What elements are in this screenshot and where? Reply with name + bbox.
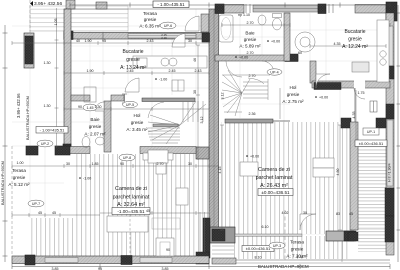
svg-text:1.90: 1.90 bbox=[87, 69, 94, 73]
dashed center right-unit bbox=[284, 210, 286, 262]
dimension vertical west outside bbox=[55, 8, 59, 148]
svg-text:A: 12.24 m²: A: 12.24 m² bbox=[342, 44, 368, 50]
column terrace wall right bbox=[55, 146, 70, 155]
south balustrade right-unit bbox=[212, 258, 236, 264]
svg-text:30: 30 bbox=[193, 90, 197, 94]
UP-4 oval bbox=[267, 69, 282, 75]
toilet baie left bbox=[82, 137, 90, 148]
room label Camera de zi left bbox=[113, 186, 150, 208]
svg-text:45: 45 bbox=[38, 211, 42, 215]
svg-text:UP-8: UP-8 bbox=[123, 156, 131, 160]
entry steps right-unit bbox=[326, 231, 354, 241]
svg-text:parchet laminat: parchet laminat bbox=[256, 175, 293, 181]
svg-text:gresie: gresie bbox=[287, 92, 300, 97]
room label Terasa mid-left bbox=[8, 168, 30, 187]
wall hol-living seg west bbox=[60, 147, 90, 154]
svg-text:±0.00=436.51: ±0.00=436.51 bbox=[359, 141, 384, 146]
svg-text:4.02: 4.02 bbox=[282, 211, 289, 215]
window south wall left bbox=[140, 258, 172, 263]
entry steps right hatch block bbox=[344, 231, 356, 241]
pier top of west wall bbox=[66, 0, 75, 9]
column terrace wall left bbox=[26, 146, 38, 155]
kitchen counter left-unit bbox=[133, 56, 207, 68]
terasa top edge line bbox=[69, 8, 209, 10]
room label Baie right bbox=[239, 31, 261, 49]
window east wall 2 bbox=[387, 120, 393, 186]
wall baie south right-unit bbox=[215, 55, 298, 61]
entry steps dim line bbox=[341, 241, 343, 262]
svg-text:Baie: Baie bbox=[90, 117, 100, 122]
svg-text:±0.00=436.51: ±0.00=436.51 bbox=[246, 246, 271, 251]
svg-text:gresie: gresie bbox=[291, 247, 304, 252]
window band left north wall bbox=[128, 34, 196, 39]
svg-text:4.15: 4.15 bbox=[218, 167, 222, 174]
porch steps center hatch bbox=[212, 229, 225, 241]
wall baie-hol left-unit bbox=[104, 101, 111, 152]
column left north near party wall bbox=[201, 14, 209, 32]
svg-text:A: 5.89 m²: A: 5.89 m² bbox=[239, 44, 261, 49]
svg-text:3.95+ 432.56: 3.95+ 432.56 bbox=[16, 93, 21, 118]
column west wall bottom bbox=[63, 144, 71, 153]
window gap marks 1 bbox=[246, 4, 250, 13]
dashed line left living bbox=[129, 210, 131, 255]
svg-text:45: 45 bbox=[146, 209, 150, 213]
svg-text:90: 90 bbox=[78, 105, 82, 109]
pier at terasa top bbox=[96, 2, 107, 9]
east wall right-unit bbox=[386, 13, 394, 255]
svg-text:4.38: 4.38 bbox=[297, 255, 304, 259]
dashed eave line top-left bbox=[29, 0, 31, 33]
svg-text:gresie: gresie bbox=[244, 37, 257, 42]
window east wall 1 bbox=[387, 26, 393, 66]
svg-text:45: 45 bbox=[349, 212, 353, 216]
svg-text:2.70: 2.70 bbox=[247, 51, 254, 55]
dining table left living bbox=[143, 150, 173, 163]
dimension line right edge bbox=[397, 5, 400, 262]
radiator entry right-unit bbox=[370, 101, 377, 112]
porch column right right-unit bbox=[376, 118, 386, 128]
room label Bucatarie left bbox=[120, 49, 146, 71]
svg-text:40: 40 bbox=[76, 39, 80, 43]
wall hol south right-unit bbox=[312, 81, 390, 88]
sofa left living bbox=[107, 216, 148, 232]
UP-6 oval bbox=[160, 22, 176, 29]
dimension line south living left bbox=[100, 211, 209, 215]
spot elevation living right bbox=[235, 56, 248, 60]
svg-text:BALUSTRADA HP=90CM: BALUSTRADA HP=90CM bbox=[258, 264, 309, 269]
kitchen counter right-unit bbox=[377, 20, 389, 82]
kitchen island right-unit bbox=[352, 62, 369, 72]
spot elevation living left bbox=[79, 177, 91, 181]
dim numbers vertical bbox=[54, 19, 356, 176]
svg-text:1.75: 1.75 bbox=[358, 91, 365, 95]
svg-text:Terasa: Terasa bbox=[12, 168, 26, 173]
hol west boundary line bbox=[279, 88, 281, 119]
UP-2 oval bbox=[37, 140, 53, 147]
svg-text:30: 30 bbox=[188, 39, 192, 43]
railing line center-bottom bbox=[235, 234, 302, 236]
svg-text:A: 2.07 m²: A: 2.07 m² bbox=[84, 132, 106, 137]
svg-text:UP-5: UP-5 bbox=[126, 103, 134, 107]
porch steps center bbox=[210, 227, 235, 243]
interior wall bucatarie-hol seg1 bbox=[111, 95, 124, 101]
svg-text:46: 46 bbox=[193, 58, 197, 62]
right side exterior steps bbox=[358, 146, 389, 230]
handrail stair-living right-unit bbox=[225, 119, 273, 123]
dim numbers right unit bbox=[52, 13, 365, 270]
column left north-west corner bbox=[64, 31, 73, 40]
column east wall mid1 bbox=[386, 66, 394, 79]
svg-text:90: 90 bbox=[166, 248, 170, 252]
svg-text:30: 30 bbox=[303, 211, 307, 215]
door arc baie left bbox=[95, 102, 104, 111]
spot elevation baie right bbox=[267, 40, 280, 44]
bathtub baie right-unit bbox=[219, 15, 233, 42]
deck planks top-left terrace bbox=[30, 6, 128, 31]
svg-text:3.12: 3.12 bbox=[221, 93, 225, 100]
column south mid left bbox=[121, 256, 132, 265]
svg-text:A: 26.43 m²: A: 26.43 m² bbox=[260, 183, 288, 189]
interior wall bucatarie-hol bar bbox=[142, 98, 195, 102]
door gap hol south bbox=[354, 81, 365, 89]
wall north right-unit seg2 bbox=[355, 5, 386, 14]
svg-text:4.35: 4.35 bbox=[352, 112, 356, 119]
kitchen sink right bowl1 bbox=[380, 51, 386, 57]
shelf unit baie left bbox=[84, 87, 96, 102]
svg-text:1.90: 1.90 bbox=[85, 39, 92, 43]
door arc hol-bucatarie right bbox=[316, 74, 330, 88]
door arc terasa left bbox=[185, 16, 199, 31]
svg-text:+0.00: +0.00 bbox=[271, 40, 280, 44]
party wall center bbox=[209, 9, 219, 242]
kitchen sink left bowl1 bbox=[161, 58, 169, 66]
UP-1 box bbox=[363, 128, 379, 135]
dimension line above living left bbox=[12, 164, 219, 168]
svg-text:95: 95 bbox=[102, 39, 106, 43]
elevation box top bbox=[153, 1, 189, 8]
svg-text:2.70: 2.70 bbox=[157, 162, 164, 166]
svg-text:BALUSTRADA HP=90CM: BALUSTRADA HP=90CM bbox=[26, 96, 30, 140]
room label Bucatarie right bbox=[342, 29, 368, 50]
door arc entry right-unit bbox=[354, 88, 365, 99]
svg-text:+0.00: +0.00 bbox=[239, 56, 248, 60]
svg-text:Hol: Hol bbox=[290, 85, 297, 90]
svg-text:A: 6.35 m²: A: 6.35 m² bbox=[139, 24, 161, 29]
porch step lines center bbox=[212, 246, 234, 254]
svg-text:parchet laminat: parchet laminat bbox=[113, 195, 150, 201]
svg-text:2.36: 2.36 bbox=[249, 112, 256, 116]
oval 1.45 bbox=[83, 104, 97, 111]
sink baie right-unit bbox=[258, 15, 266, 25]
svg-text:UP-2: UP-2 bbox=[41, 142, 49, 146]
dim numbers left unit bbox=[17, 33, 202, 252]
column east wall mid2 bbox=[386, 104, 394, 119]
column party wall lower bbox=[196, 147, 209, 159]
svg-text:Terasa: Terasa bbox=[143, 11, 157, 16]
wall baie-bucatarie right-unit bbox=[284, 13, 290, 61]
svg-text:A: 2.75 m²: A: 2.75 m² bbox=[282, 99, 304, 104]
cabinet left living bbox=[156, 163, 166, 174]
svg-text:45: 45 bbox=[52, 211, 56, 215]
svg-text:gresie: gresie bbox=[89, 124, 102, 129]
spot elevation bucatarie right bbox=[315, 96, 328, 100]
UP-7 oval bbox=[28, 200, 44, 207]
svg-text:1.30: 1.30 bbox=[44, 61, 51, 65]
west wall left-unit bbox=[64, 9, 71, 152]
window south wall far left bbox=[45, 258, 78, 263]
svg-text:2.45: 2.45 bbox=[127, 69, 134, 73]
kitchen appliance left bbox=[137, 58, 147, 67]
radiator mark hol bbox=[122, 94, 127, 103]
svg-text:A: 5.12 m²: A: 5.12 m² bbox=[8, 182, 30, 187]
room label Hol right bbox=[282, 85, 304, 104]
svg-text:gresie: gresie bbox=[144, 17, 157, 22]
kitchen appliance pair left bbox=[172, 80, 184, 91]
party wall dark strip south bbox=[203, 218, 210, 258]
coffee table left living bbox=[156, 238, 174, 256]
elevation box terasa right bbox=[242, 246, 274, 252]
svg-text:1.45: 1.45 bbox=[87, 106, 94, 110]
interior wall west stub bbox=[71, 95, 90, 101]
dimension line hol left bbox=[64, 107, 209, 111]
room label Baie left bbox=[84, 117, 106, 137]
svg-text:gresie: gresie bbox=[131, 120, 144, 125]
svg-text:1.30: 1.30 bbox=[95, 105, 102, 109]
svg-text:3.12: 3.12 bbox=[200, 117, 204, 124]
staircase right-unit bbox=[222, 61, 270, 116]
svg-text:1.30: 1.30 bbox=[44, 104, 51, 108]
right terrace planks bbox=[234, 236, 350, 259]
room label Camera de zi right bbox=[256, 167, 293, 189]
wall hol-bucatarie stub bbox=[310, 61, 316, 83]
door arc baie right bbox=[262, 61, 274, 73]
svg-text:8.10: 8.10 bbox=[255, 256, 262, 260]
dimension vertical pair near party wall bbox=[200, 212, 205, 252]
column party wall upper bbox=[202, 33, 210, 42]
svg-text:- 1.00=435.51: - 1.00=435.51 bbox=[40, 128, 66, 133]
dimension line left terrace bottom bbox=[12, 213, 100, 217]
svg-text:30: 30 bbox=[188, 162, 192, 166]
svg-text:2.43: 2.43 bbox=[147, 39, 154, 43]
dashed boundary left bbox=[11, 146, 13, 262]
tv cabinet right living bbox=[313, 158, 334, 168]
svg-text:-1.00=435.51: -1.00=435.51 bbox=[117, 209, 145, 214]
svg-text:UP-1: UP-1 bbox=[367, 130, 375, 134]
tv cabinet right living 2 bbox=[313, 168, 334, 177]
door arc kitchen left bbox=[172, 34, 185, 48]
handrail left stair bbox=[153, 124, 178, 127]
column party wall south end bbox=[196, 252, 209, 264]
svg-text:Terasa: Terasa bbox=[290, 240, 304, 245]
svg-text:3.95+ 432.56: 3.95+ 432.56 bbox=[34, 1, 62, 7]
dimension line top bbox=[70, 3, 390, 8]
svg-text:UP-6: UP-6 bbox=[164, 24, 172, 28]
dimension line below left north wall bbox=[12, 41, 209, 45]
round table bucatarie right bbox=[295, 32, 315, 52]
svg-text:BALUSTRADA HP=90CM: BALUSTRADA HP=90CM bbox=[1, 161, 5, 205]
svg-text:Camera de zi: Camera de zi bbox=[258, 167, 290, 173]
elevation box entry right bbox=[355, 140, 387, 147]
window gap marks 2 bbox=[329, 4, 333, 13]
wall hol-living seg east bbox=[140, 147, 196, 154]
spot elevation hol left bbox=[155, 78, 167, 82]
dimension line left edge bbox=[3, 25, 8, 262]
svg-text:+0.00: +0.00 bbox=[250, 155, 259, 159]
svg-text:UP-4: UP-4 bbox=[270, 71, 278, 75]
round table inner bbox=[300, 37, 310, 47]
dimension line right unit upper bbox=[222, 23, 390, 48]
svg-text:1.85: 1.85 bbox=[92, 162, 99, 166]
UP-5 oval bbox=[123, 101, 138, 107]
svg-text:Baie: Baie bbox=[245, 31, 255, 36]
UP-3 oval bbox=[269, 242, 285, 249]
elevation box living right bbox=[258, 189, 293, 196]
svg-text:A: 32.64 m²: A: 32.64 m² bbox=[117, 202, 145, 208]
svg-text:30: 30 bbox=[66, 162, 70, 166]
svg-text:-1.00: -1.00 bbox=[159, 78, 167, 82]
svg-text:Bucatarie: Bucatarie bbox=[344, 29, 365, 35]
svg-text:2.45: 2.45 bbox=[169, 69, 176, 73]
door arc bucatarie-hol bbox=[125, 78, 139, 92]
svg-text:2.70: 2.70 bbox=[249, 74, 256, 78]
svg-text:+0.00: +0.00 bbox=[319, 96, 328, 100]
wall north left-unit bbox=[64, 33, 209, 40]
toilet baie right-unit bbox=[273, 18, 282, 30]
svg-text:2.43: 2.43 bbox=[195, 69, 202, 73]
svg-text:UP-3: UP-3 bbox=[273, 244, 281, 248]
balustrade bar dark part bbox=[25, 36, 33, 64]
wall north right-unit seg1 bbox=[224, 5, 244, 14]
svg-text:Hol: Hol bbox=[134, 113, 141, 118]
room label Hol left bbox=[126, 113, 148, 132]
south wall left-unit bbox=[12, 256, 209, 264]
elevation box living left bbox=[112, 208, 150, 215]
living room left plank floor bbox=[74, 154, 208, 257]
column hol south bbox=[314, 83, 341, 90]
svg-text:2.19: 2.19 bbox=[161, 36, 167, 40]
svg-text:- 1.00=435.51: - 1.00=435.51 bbox=[157, 2, 185, 7]
svg-text:-1.00: -1.00 bbox=[83, 177, 91, 181]
svg-text:83: 83 bbox=[336, 212, 340, 216]
porch column left right-unit bbox=[341, 118, 351, 128]
spot elevation camera right bbox=[246, 155, 259, 159]
column right north 2 bbox=[318, 4, 326, 14]
dimension line mid left unit bbox=[64, 71, 209, 75]
svg-text:1.00: 1.00 bbox=[17, 161, 24, 165]
kitchen sink left bowl2 bbox=[169, 58, 177, 66]
left lower terrace planks bbox=[29, 218, 74, 257]
column right north at party wall bbox=[215, 4, 224, 14]
svg-text:gresie: gresie bbox=[348, 37, 362, 43]
staircase left-unit bbox=[148, 101, 206, 144]
room label Terasa top bbox=[139, 11, 161, 29]
svg-text:±0.00=436.51: ±0.00=436.51 bbox=[261, 190, 290, 195]
svg-text:np 1.10: np 1.10 bbox=[238, 13, 250, 17]
living room right plank floor bbox=[221, 122, 350, 234]
window band right north bbox=[253, 5, 318, 12]
svg-text:Bucatarie: Bucatarie bbox=[122, 49, 143, 55]
svg-text:90: 90 bbox=[120, 162, 124, 166]
sink baie left bbox=[96, 137, 105, 145]
elevation box terrace left bbox=[36, 127, 68, 134]
column east wall bottom bbox=[385, 216, 394, 242]
armchair left living bbox=[176, 188, 188, 205]
wall living-terasa east bbox=[350, 122, 358, 230]
kitchen sink right bowl2 bbox=[380, 59, 386, 65]
svg-text:H tr.=1.90/4: H tr.=1.90/4 bbox=[388, 163, 392, 182]
svg-text:Camera de zi: Camera de zi bbox=[115, 186, 147, 192]
entry corridor wall line bbox=[354, 88, 356, 122]
svg-text:6.10: 6.10 bbox=[262, 225, 269, 229]
column east wall lower bbox=[385, 188, 394, 216]
svg-text:A: 3.45 m²: A: 3.45 m² bbox=[126, 127, 148, 132]
svg-text:1.05: 1.05 bbox=[54, 19, 58, 26]
sideboard right living bbox=[240, 162, 258, 176]
dimension line bottom bbox=[12, 264, 390, 269]
balustrade bar upper-left bbox=[24, 33, 34, 68]
dimension vertical right living bbox=[338, 90, 356, 230]
elevation flag top-left bbox=[30, 1, 62, 7]
dimension vertical party wall bbox=[196, 45, 224, 230]
door arc terasa right-unit bbox=[300, 214, 316, 230]
UP-8 oval bbox=[119, 154, 135, 161]
svg-text:4.80: 4.80 bbox=[336, 169, 340, 176]
column baie south bbox=[285, 54, 298, 62]
svg-text:UP-7: UP-7 bbox=[32, 202, 40, 206]
svg-text:2.70: 2.70 bbox=[247, 21, 254, 25]
svg-text:gresie: gresie bbox=[126, 57, 140, 63]
svg-text:4.35: 4.35 bbox=[334, 42, 341, 46]
column south-west corner bbox=[25, 255, 35, 265]
svg-text:gresie: gresie bbox=[13, 175, 26, 180]
svg-text:60: 60 bbox=[298, 51, 302, 55]
column north-east corner bbox=[386, 2, 397, 21]
room label Terasa right bbox=[286, 240, 308, 259]
